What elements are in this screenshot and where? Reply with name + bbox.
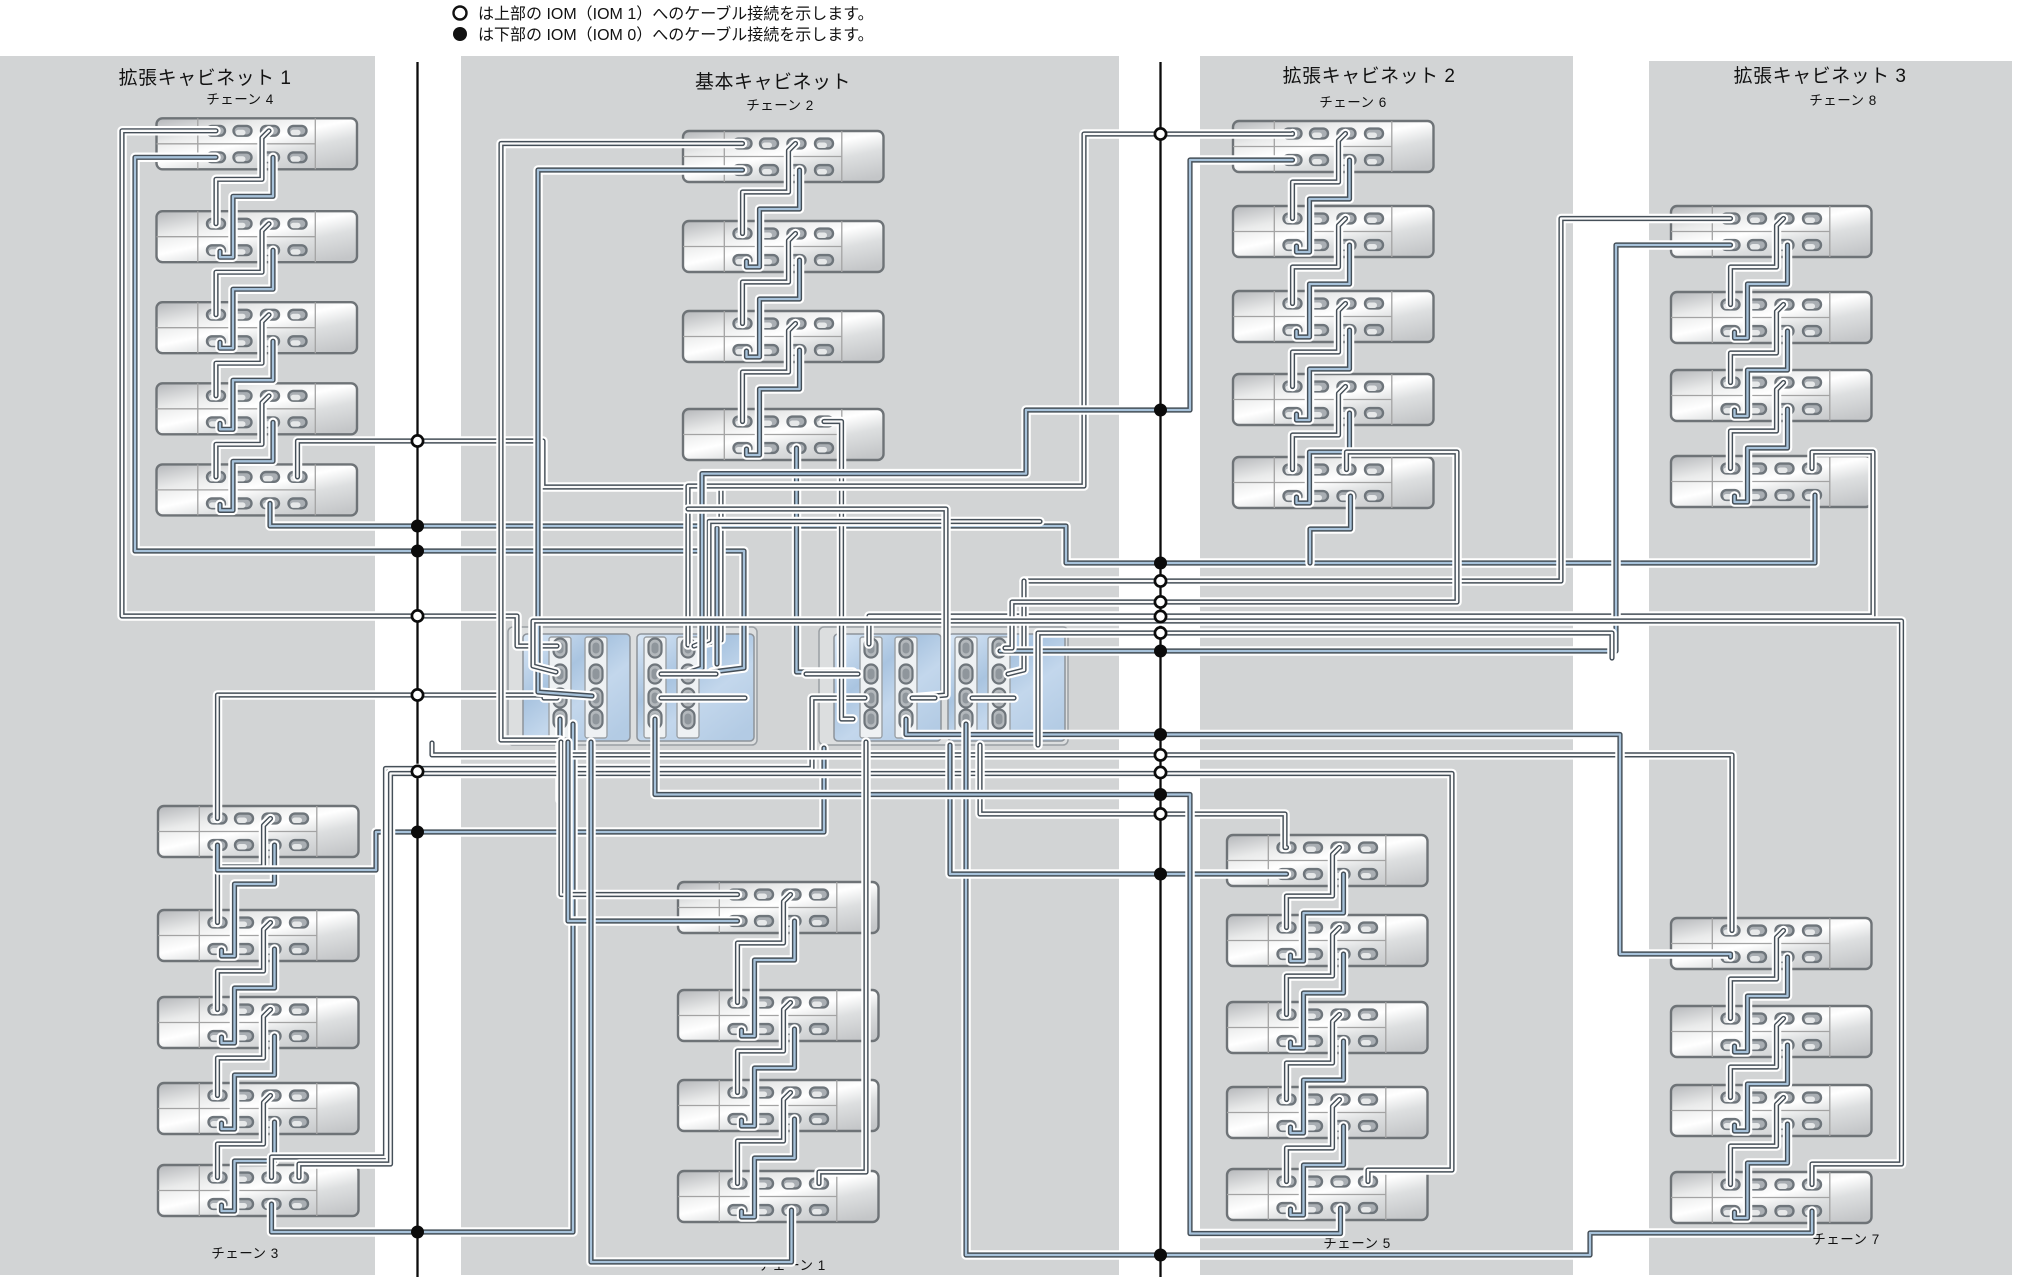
wire chain3 IOM1 cable shelf3-shelf4 [218, 1010, 271, 1096]
node rack1 crossing y=526 IOM0 [411, 520, 424, 533]
wire head1 HBA stub e [661, 669, 716, 679]
wire chain2 head IOM1 [501, 144, 743, 741]
wire chain2 IOM0 cable shelf1-shelf2 [747, 170, 800, 267]
disk shelf chain5 shelf 1 [1227, 835, 1428, 886]
controller head 1 HBA strip 4 [677, 637, 699, 738]
wire chain3 IOM0 cable shelf1-shelf2 [222, 845, 275, 956]
wire chain3 IOM1 cable shelf4-shelf5 [218, 1096, 271, 1178]
wire chain8 head IOM0 [1000, 245, 1731, 651]
svg-text:拡張キャビネット 3: 拡張キャビネット 3 [1734, 65, 1907, 87]
disk shelf chain8 shelf 3 [1671, 370, 1872, 421]
node rack2 crossing y=563 IOM0 [1154, 557, 1167, 570]
disk shelf chain4 shelf 5 [157, 464, 358, 515]
node rack2 crossing y=633 IOM1 [1155, 627, 1166, 638]
wire aux IOM1 run y521 [694, 522, 1040, 647]
controller chassis head 2 [819, 627, 1068, 745]
node rack2 crossing y=410 IOM0 [1154, 404, 1167, 417]
wire chain7 IOM0 cable shelf2-shelf3 [1735, 1045, 1788, 1131]
svg-text:拡張キャビネット 1: 拡張キャビネット 1 [119, 67, 292, 89]
wire chain1 IOM1 cable shelf3-shelf4 [738, 1093, 791, 1184]
svg-text:は上部の IOM（IOM 1）へのケーブル接続を示します。: は上部の IOM（IOM 1）へのケーブル接続を示します。 [478, 4, 874, 23]
wire chain6 head IOM1 [688, 134, 1293, 646]
disk shelf chain7 shelf 4 [1671, 1172, 1872, 1223]
wire chain6 IOM1 cable shelf2-shelf3 [1293, 219, 1346, 304]
wire chain6 head IOM0 [690, 160, 1293, 672]
wire chain2 IOM0 cable shelf3-shelf4 [747, 350, 800, 455]
disk shelf chain1 shelf 1 [678, 882, 879, 933]
cabinet col1 background [0, 56, 375, 1275]
node rack2 crossing y=874 IOM0 [1154, 868, 1167, 881]
wire head2 HBA stub f [972, 693, 1014, 703]
disk shelf chain3 shelf 2 [158, 910, 359, 961]
disk shelf chain6 shelf 3 [1233, 291, 1434, 342]
node rack1 crossing y=616 IOM1 [412, 610, 423, 621]
wire chain1 tail IOM1 [819, 742, 866, 1184]
controller head 2 blue panel B [948, 634, 1065, 741]
svg-text:チェーン 3: チェーン 3 [211, 1246, 279, 1261]
controller head 1 HBA strip 1 [549, 637, 571, 738]
disk shelf chain2 shelf 2 [683, 221, 884, 272]
disk shelf chain5 shelf 5 [1227, 1169, 1428, 1220]
wire chain8 IOM0 cable shelf3-shelf4 [1735, 409, 1788, 502]
disk shelf chain6 shelf 1 [1233, 121, 1434, 172]
legend IOM1 open circle [454, 7, 467, 20]
disk shelf chain1 shelf 3 [678, 1080, 879, 1131]
wire chain6 IOM0 cable shelf4-shelf5 [1297, 413, 1350, 503]
wire chain4 head IOM0 [135, 157, 744, 672]
wire chain4 head IOM1 [122, 131, 557, 646]
node rack1 crossing y=1232 IOM0 [411, 1226, 424, 1239]
wire chain3 tail IOM0 [272, 724, 574, 1232]
node rack1 crossing y=771.5 IOM1 [412, 766, 423, 777]
wire chain1 IOM1 cable shelf2-shelf3 [738, 1003, 791, 1093]
disk shelf chain3 shelf 5 [158, 1165, 359, 1216]
disk shelf chain2 shelf 3 [683, 311, 884, 362]
wire chain6 IOM1 cable shelf4-shelf5 [1293, 387, 1346, 470]
wire chain3 IOM0 cable shelf3-shelf4 [222, 1036, 275, 1129]
wire chain5 IOM0 cable shelf3-shelf4 [1291, 1041, 1344, 1133]
wire head1 HBA stub b [661, 693, 745, 703]
disk shelf chain2 shelf 4 [683, 409, 884, 460]
disk shelf chain3 shelf 1 [158, 806, 359, 857]
wire chain3 tail IOM1 b [299, 774, 1452, 1182]
wire chain8 IOM0 cable shelf2-shelf3 [1735, 331, 1788, 416]
node rack2 crossing y=602 IOM1 [1155, 596, 1166, 607]
wire chain6 IOM1 cable shelf1-shelf2 [1293, 134, 1346, 219]
wire chain8 head IOM1 stub [1008, 581, 1024, 674]
wire chain6 IOM0 cable shelf3-shelf4 [1297, 330, 1350, 420]
disk shelf chain7 shelf 1 [1671, 918, 1872, 969]
wire chain8 IOM1 cable shelf3-shelf4 [1731, 383, 1784, 469]
node rack2 crossing y=814 IOM1 [1155, 808, 1166, 819]
node rack2 crossing y=651 IOM0 [1154, 645, 1167, 658]
node rack2 crossing y=581 IOM1 [1155, 575, 1166, 586]
wire chain8 IOM0 cable shelf1-shelf2 [1735, 245, 1788, 338]
wire chain7 IOM0 cable shelf3-shelf4 [1735, 1124, 1788, 1218]
wire head1 HBA4 port4 downlink stub [555, 719, 565, 800]
svg-text:チェーン 2: チェーン 2 [746, 98, 814, 113]
wire chain6 tail IOM0 [1310, 496, 1351, 563]
controller head 2 HBA strip 1 [860, 637, 882, 738]
disk shelf chain3 shelf 4 [158, 1083, 359, 1134]
node rack2 crossing y=616.5 IOM1 [1155, 611, 1166, 622]
disk shelf chain4 shelf 2 [157, 211, 358, 262]
wire chain4 tail IOM1 [298, 441, 722, 644]
node rack1 crossing y=441 IOM1 [412, 435, 423, 446]
legend IOM0 filled circle [453, 27, 467, 41]
svg-text:拡張キャビネット 2: 拡張キャビネット 2 [1283, 65, 1456, 87]
node rack2 crossing y=734.5 IOM0 [1154, 728, 1167, 741]
disk shelf chain5 shelf 4 [1227, 1087, 1428, 1138]
wire chain4 IOM0 cable shelf3-shelf4 [220, 341, 273, 429]
wire chain2 IOM1 cable shelf2-shelf3 [743, 234, 796, 324]
wire chain2 IOM1 cable shelf1-shelf2 [743, 144, 796, 234]
node rack2 crossing y=794.5 IOM0 [1154, 788, 1167, 801]
wire chain4 IOM0 cable shelf1-shelf2 [220, 157, 273, 257]
wire head2 HBA stub b [806, 669, 858, 679]
wire chain3 IOM1 cable shelf1-shelf2 [218, 819, 271, 923]
node rack1 crossing y=551 IOM0 [411, 545, 424, 558]
node rack1 crossing y=695 IOM1 [412, 689, 423, 700]
svg-text:チェーン 4: チェーン 4 [206, 92, 274, 107]
node rack2 crossing y=772.5 IOM1 [1155, 767, 1166, 778]
wire chain4 IOM1 cable shelf3-shelf4 [216, 315, 269, 396]
wire chain3 IOM0 cable shelf4-shelf5 [222, 1122, 275, 1211]
wire head2 HBA stub d [912, 693, 935, 703]
wire chain5 head IOM1 [980, 745, 1287, 848]
wire chain8 IOM1 cable shelf2-shelf3 [1731, 305, 1784, 383]
wire chain6 IOM1 cable shelf3-shelf4 [1293, 304, 1346, 387]
wire aux IOM1 run y633 [1038, 633, 1612, 745]
cabinet col3 background [1200, 56, 1573, 1275]
node rack2 crossing y=1255 IOM0 [1154, 1249, 1167, 1262]
controller head 1 HBA strip 3 [644, 637, 666, 738]
wire aux IOM1 run y509 [688, 509, 946, 698]
wire chain7 IOM1 cable shelf1-shelf2 [1731, 931, 1784, 1019]
svg-text:チェーン 6: チェーン 6 [1319, 95, 1387, 110]
svg-text:は下部の IOM（IOM 0）へのケーブル接続を示します。: は下部の IOM（IOM 0）へのケーブル接続を示します。 [478, 25, 874, 44]
wire chain5 IOM1 cable shelf1-shelf2 [1287, 848, 1340, 928]
wire chain8 head IOM1 [1024, 219, 1731, 582]
wire chain5 IOM0 cable shelf1-shelf2 [1291, 874, 1344, 961]
rack boundary line 1 [416, 62, 418, 1277]
wire chain1 tail IOM0 [591, 742, 792, 1262]
wire chain2 IOM1 cable shelf3-shelf4 [743, 324, 796, 422]
wire chain2 tail IOM0 [797, 448, 854, 672]
wire chain5 IOM0 cable shelf4-shelf5 [1291, 1126, 1344, 1215]
disk shelf chain4 shelf 3 [157, 302, 358, 353]
wire chain6 tail IOM1 [1005, 452, 1457, 648]
controller head 1 blue panel B [637, 634, 754, 741]
wire chain7 IOM1 cable shelf3-shelf4 [1731, 1098, 1784, 1185]
disk shelf chain1 shelf 4 [678, 1171, 879, 1222]
disk shelf chain5 shelf 2 [1227, 915, 1428, 966]
controller head 2 HBA strip 2 [895, 637, 917, 738]
disk shelf chain7 shelf 3 [1671, 1085, 1872, 1136]
wire chain3 head IOM0 [218, 748, 825, 870]
controller head 2 HBA strip 3 [955, 637, 977, 738]
disk shelf chain7 shelf 2 [1671, 1006, 1872, 1057]
node rack2 crossing y=754.9 IOM1 [1155, 749, 1166, 760]
disk shelf chain6 shelf 2 [1233, 206, 1434, 257]
wire head1 HBA4 port2 uplink stub [712, 528, 722, 664]
wire chain1 IOM0 cable shelf3-shelf4 [742, 1119, 795, 1217]
wire chain7 IOM0 cable shelf1-shelf2 [1735, 957, 1788, 1052]
wire chain2 IOM0 cable shelf2-shelf3 [747, 260, 800, 357]
disk shelf chain5 shelf 3 [1227, 1002, 1428, 1053]
cabinet col4 background [1649, 61, 2012, 1275]
svg-text:基本キャビネット: 基本キャビネット [695, 71, 851, 93]
disk shelf chain1 shelf 2 [678, 990, 879, 1041]
wire chain5 IOM1 cable shelf4-shelf5 [1287, 1100, 1340, 1182]
disk shelf chain8 shelf 1 [1671, 206, 1872, 257]
node rack1 crossing y=832 IOM0 [411, 826, 424, 839]
disk shelf chain6 shelf 5 [1233, 457, 1434, 508]
wire chain3 tail IOM1 a [272, 698, 866, 1178]
wire chain1 head IOM1 [561, 742, 738, 895]
wire chain8 tail IOM1 [869, 452, 1873, 644]
cabinet col2 background [461, 56, 1119, 1275]
disk shelf chain4 shelf 4 [157, 383, 358, 434]
wire chain1 IOM0 cable shelf2-shelf3 [742, 1029, 795, 1126]
wire chain7 IOM1 cable shelf2-shelf3 [1731, 1019, 1784, 1098]
controller head 1 blue panel A [523, 634, 630, 741]
wire chain4 IOM0 cable shelf2-shelf3 [220, 250, 273, 348]
wire chain4 IOM1 cable shelf2-shelf3 [216, 224, 269, 315]
wire chain1 head IOM0 [568, 742, 738, 921]
node rack2 crossing y=134 IOM1 [1155, 128, 1166, 139]
disk shelf chain8 shelf 4 [1671, 456, 1872, 507]
controller head 2 blue panel A [834, 634, 941, 741]
wire chain3 IOM1 cable shelf2-shelf3 [218, 923, 271, 1010]
disk shelf chain6 shelf 4 [1233, 374, 1434, 425]
disk shelf chain3 shelf 3 [158, 997, 359, 1048]
controller chassis head 1 [508, 627, 757, 745]
wire chain3 IOM0 cable shelf2-shelf3 [222, 949, 275, 1043]
wire chain2 head IOM0 [538, 170, 743, 696]
wire chain6 IOM0 cable shelf1-shelf2 [1297, 160, 1350, 252]
controller head 2 HBA strip 4 [988, 637, 1010, 738]
wire chain3 head IOM1 [218, 695, 558, 819]
wire chain4 IOM1 cable shelf4-shelf5 [216, 396, 269, 477]
disk shelf chain8 shelf 2 [1671, 292, 1872, 343]
wire chain4 IOM1 cable shelf1-shelf2 [216, 131, 269, 224]
wire chain6 IOM0 cable shelf2-shelf3 [1297, 245, 1350, 337]
wire chain4 IOM0 cable shelf4-shelf5 [220, 422, 273, 510]
wire chain5 IOM1 cable shelf3-shelf4 [1287, 1015, 1340, 1100]
wire chain7 head IOM1 [432, 743, 1732, 931]
wire chain5 head IOM0 [950, 745, 1287, 874]
disk shelf chain2 shelf 1 [683, 131, 884, 182]
wire chain8 IOM1 cable shelf1-shelf2 [1731, 219, 1784, 305]
svg-text:チェーン 7: チェーン 7 [1812, 1232, 1880, 1247]
wire chain7 tail IOM1 [533, 621, 1902, 1185]
wire chain5 IOM0 cable shelf2-shelf3 [1291, 954, 1344, 1048]
wire chain5 IOM1 cable shelf2-shelf3 [1287, 928, 1340, 1015]
wire chain7 head IOM0 [906, 719, 1731, 957]
rack boundary line 2 [1159, 62, 1161, 1277]
wire chain7 tail IOM0 [966, 724, 1812, 1255]
controller head 1 HBA strip 2 [585, 637, 607, 738]
svg-text:チェーン 8: チェーン 8 [1809, 93, 1877, 108]
wire chain1 IOM0 cable shelf1-shelf2 [742, 921, 795, 1036]
disk shelf chain4 shelf 1 [157, 118, 358, 169]
wire chain4 tail IOM0 [270, 495, 1815, 563]
wire chain2 tail IOM1 [824, 422, 853, 720]
wire chain1 IOM1 cable shelf1-shelf2 [738, 895, 791, 1003]
wire chain5 tail IOM0 [655, 719, 1341, 1234]
